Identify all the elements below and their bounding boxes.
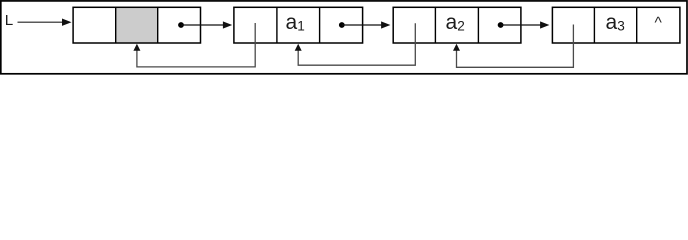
node 1 header box [73, 7, 200, 43]
wire L arrow [18, 21, 63, 23]
wire node2 -> node3 [342, 24, 382, 26]
node 2 box [234, 7, 363, 43]
wire node1 -> node2 [181, 24, 224, 26]
node 1 next pointer dot [178, 22, 184, 28]
outer frame [1, 1, 687, 74]
svg-text:L: L [5, 12, 13, 29]
wire node3 -> node4 [501, 24, 541, 26]
wire node3 prev -> node2 [295, 23, 416, 65]
node 4 box [552, 7, 680, 43]
svg-text:^: ^ [655, 15, 663, 32]
node 2 next pointer dot [339, 22, 345, 28]
node 3 next pointer dot [498, 22, 504, 28]
node 3 box [393, 7, 521, 43]
wire node4 prev -> node3 [453, 25, 573, 68]
wire node2 prev -> node1 [133, 23, 255, 67]
